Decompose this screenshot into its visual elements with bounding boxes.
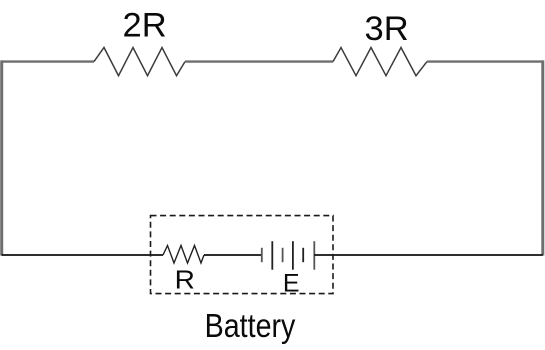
wire bottom-left segment xyxy=(2,254,164,256)
wire top-left segment xyxy=(2,60,95,62)
svg-text:2R: 2R xyxy=(123,7,167,45)
battery E left terminal tick xyxy=(261,248,263,262)
resistor R3 (R, inside battery box) zigzag xyxy=(163,246,204,264)
battery plate long 3 xyxy=(313,241,315,270)
battery plate short 2 xyxy=(302,248,304,262)
wire left vertical xyxy=(0,60,3,255)
battery plate short 1 xyxy=(282,248,284,262)
battery plate long 2 xyxy=(292,241,294,270)
wire between R and battery xyxy=(204,254,262,256)
wire right vertical xyxy=(541,60,544,255)
svg-text:3R: 3R xyxy=(365,10,409,48)
wire top-right segment xyxy=(427,60,543,62)
battery dashed enclosure box xyxy=(151,216,334,294)
svg-text:R: R xyxy=(175,266,195,295)
svg-text:Battery: Battery xyxy=(205,307,296,345)
wire top-middle segment xyxy=(185,60,333,62)
resistor R1 (2R) zigzag xyxy=(94,48,185,76)
battery plate long 1 xyxy=(271,241,273,270)
wire bottom-right segment xyxy=(314,254,543,256)
resistor R2 (3R) zigzag xyxy=(333,48,427,76)
